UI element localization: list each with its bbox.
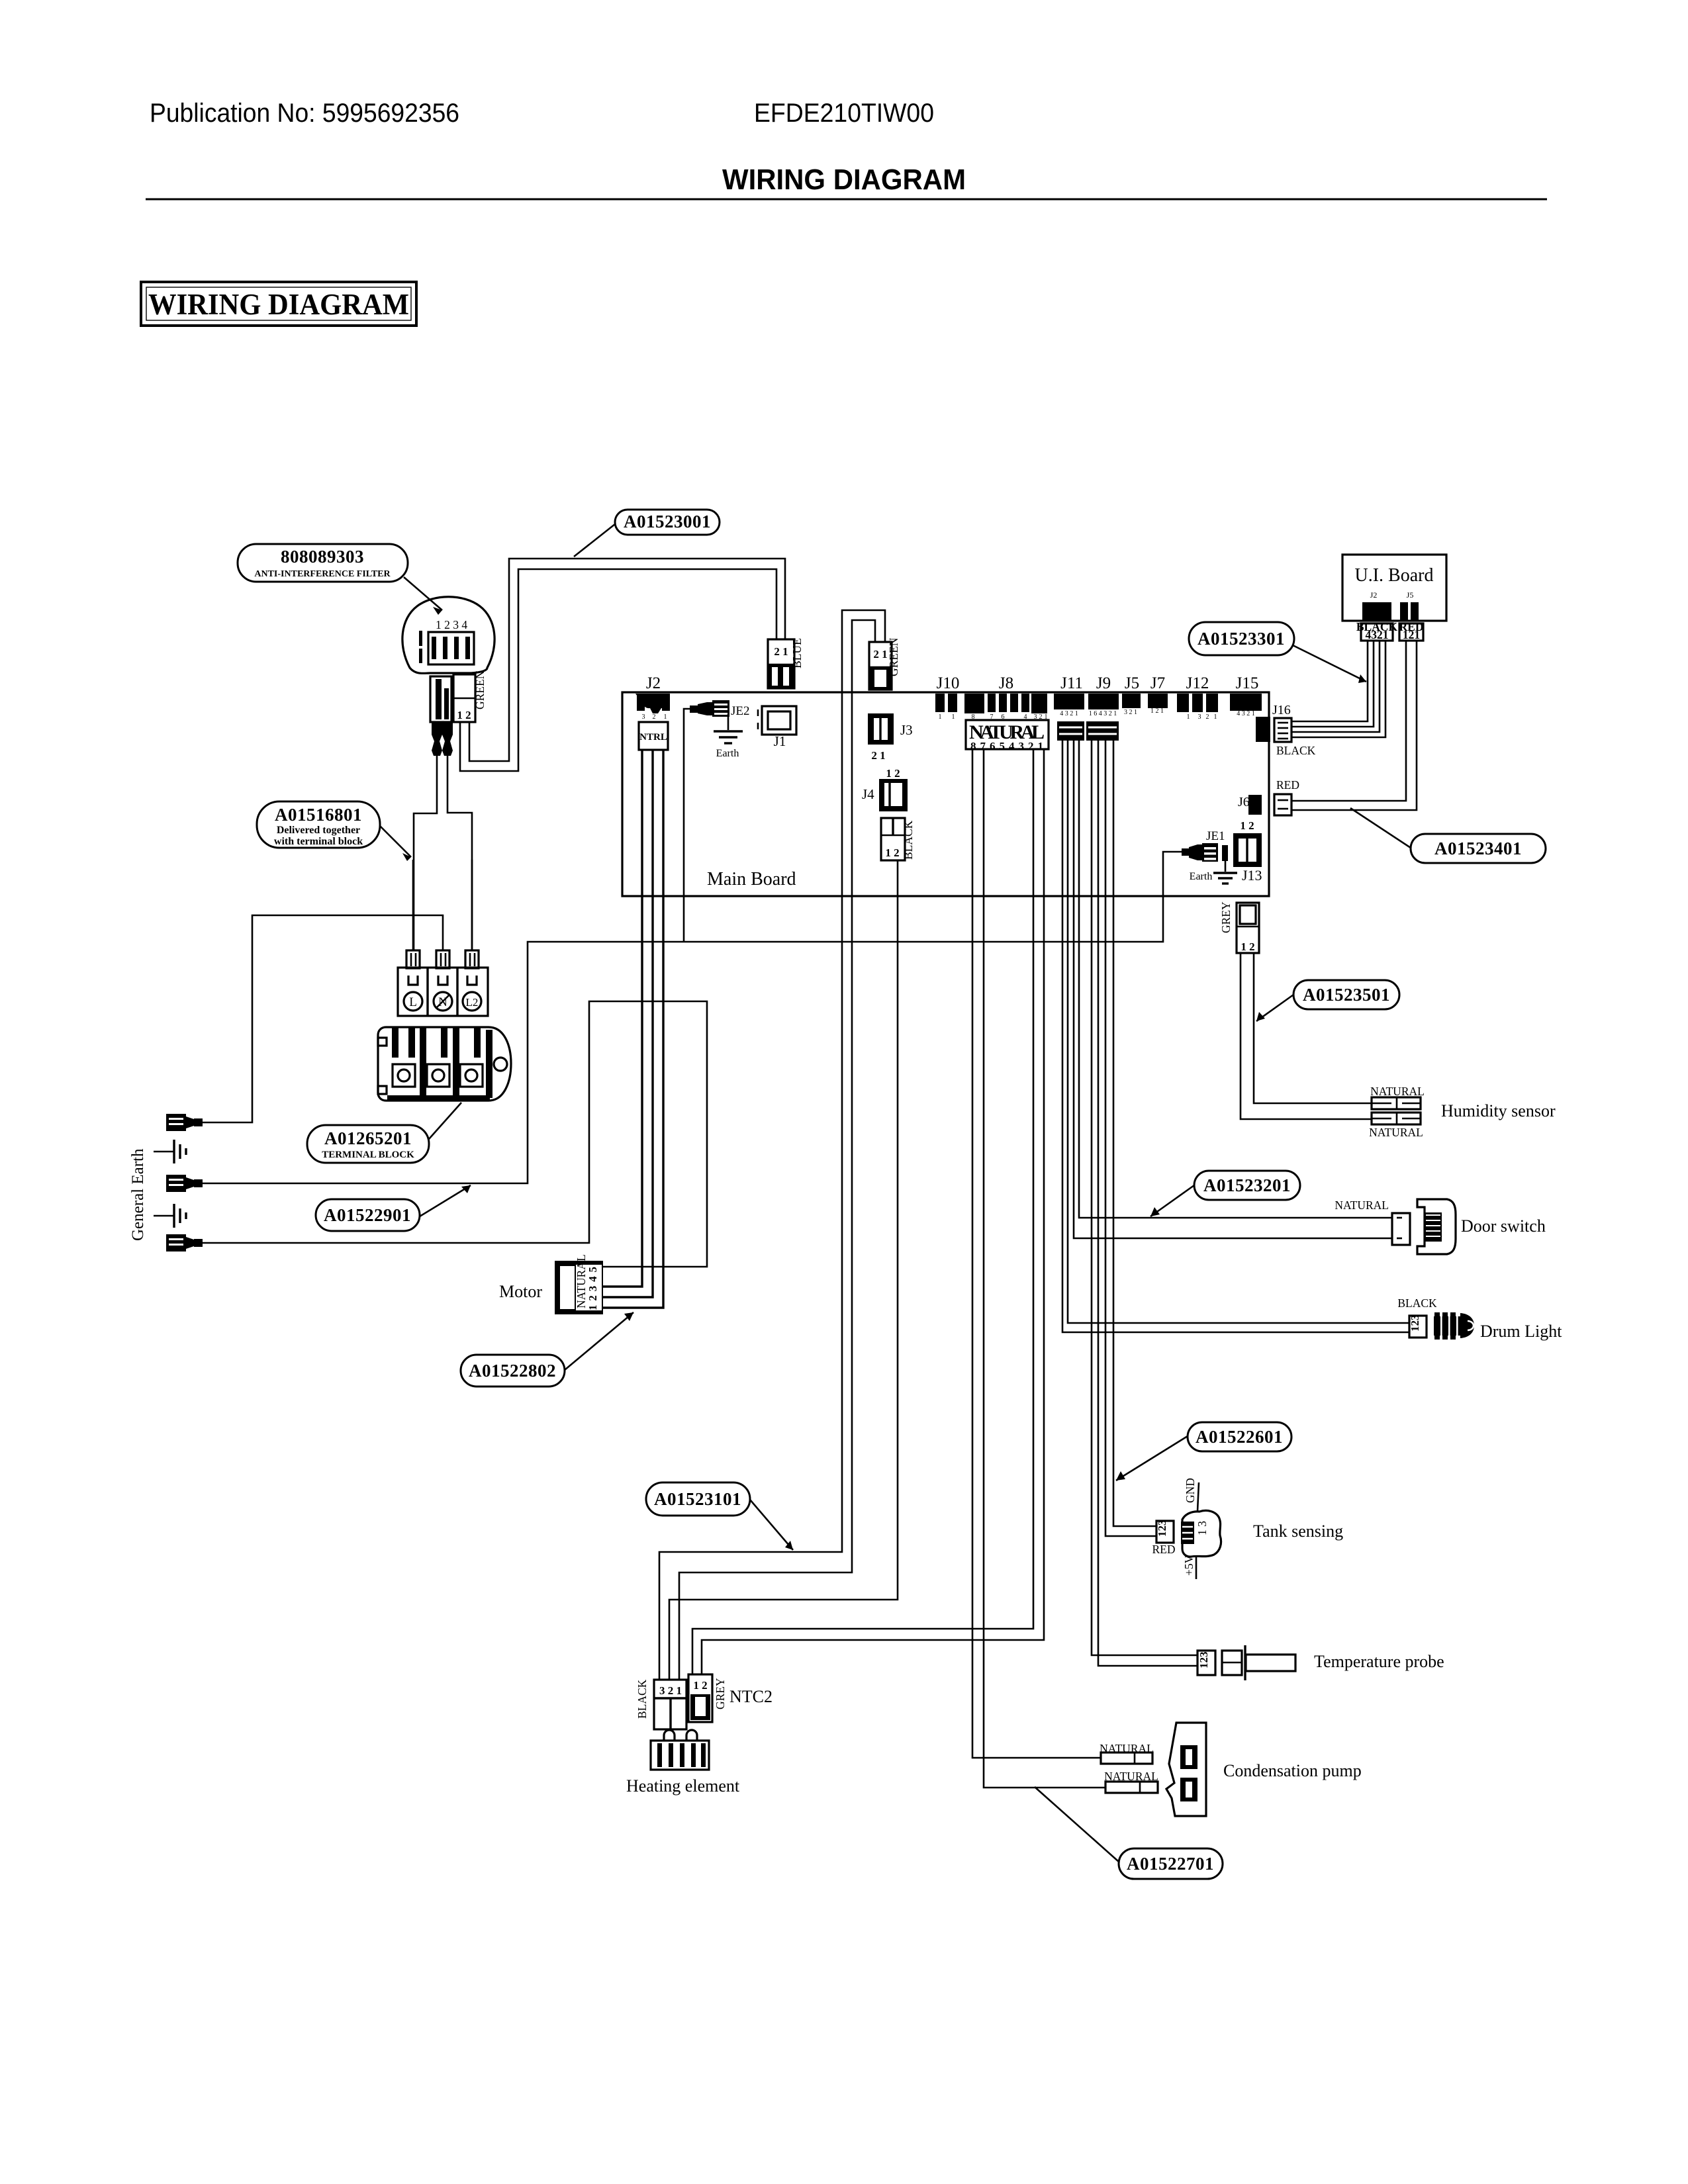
wire NATURAL8 pin1 to NTC2 GREY pin2 <box>702 749 1044 1674</box>
svg-text:A01522901: A01522901 <box>324 1205 411 1225</box>
svg-text:Humidity sensor: Humidity sensor <box>1441 1101 1556 1120</box>
main board outline <box>622 692 1269 896</box>
svg-text:1 2 1: 1 2 1 <box>1150 707 1164 715</box>
svg-text:2 1: 2 1 <box>873 648 887 660</box>
callout A01522901 <box>316 1185 471 1231</box>
svg-text:1 2 3 4 5: 1 2 3 4 5 <box>586 1267 599 1310</box>
connector block under J9 <box>1086 721 1119 741</box>
svg-text:J9: J9 <box>1096 674 1111 692</box>
connector BLUE at board top <box>768 638 804 688</box>
svg-text:3: 3 <box>642 713 645 721</box>
wire terminal N to general earth spade 1 <box>203 915 443 1122</box>
svg-text:1: 1 <box>664 713 667 721</box>
svg-text:121: 121 <box>1403 628 1420 641</box>
boxed section title WIRING DIAGRAM <box>141 282 416 326</box>
connector J7 <box>1148 694 1168 708</box>
svg-text:EFDE210TIW00: EFDE210TIW00 <box>754 99 934 128</box>
connector NATURAL 8-pin under J8 <box>966 720 1049 752</box>
temperature probe body <box>1222 1645 1295 1680</box>
svg-text:General Earth: General Earth <box>129 1148 147 1241</box>
svg-text:3 2 1: 3 2 1 <box>659 1684 682 1697</box>
connector J8 <box>964 694 1047 713</box>
svg-text:ANTI-INTERFERENCE FILTER: ANTI-INTERFERENCE FILTER <box>254 569 391 579</box>
svg-text:3: 3 <box>1198 713 1201 721</box>
svg-text:Delivered together: Delivered together <box>277 825 360 836</box>
svg-text:A01523001: A01523001 <box>624 512 711 531</box>
svg-text:J7: J7 <box>1150 674 1165 692</box>
svg-text:NTRL: NTRL <box>639 732 667 743</box>
svg-text:A01522802: A01522802 <box>469 1361 556 1381</box>
connector J1 <box>758 706 796 749</box>
connector J3 <box>868 713 913 762</box>
svg-text:123: 123 <box>1156 1520 1168 1537</box>
wire terminal L2 up to filter spade <box>471 860 473 950</box>
filter bottom spade a <box>432 723 442 756</box>
svg-text:A01523401: A01523401 <box>1434 839 1522 858</box>
callout A01523401 <box>1350 808 1546 863</box>
callout A01522601 <box>1116 1422 1291 1480</box>
svg-text:Temperature probe: Temperature probe <box>1314 1652 1444 1671</box>
svg-text:BLACK: BLACK <box>1397 1297 1437 1310</box>
pump NATURAL bar 2 <box>1104 1770 1158 1793</box>
svg-text:8 7 6 5 4 3 2 1: 8 7 6 5 4 3 2 1 <box>970 740 1043 752</box>
wire filter spade a to terminal L <box>414 756 437 950</box>
anti-interference filter dome <box>402 597 494 674</box>
heating element <box>651 1730 709 1770</box>
svg-text:4 3 2 1: 4 3 2 1 <box>1237 710 1255 717</box>
svg-text:A01523301: A01523301 <box>1197 629 1285 649</box>
svg-text:123: 123 <box>1409 1315 1421 1332</box>
svg-text:Heating element: Heating element <box>626 1776 740 1796</box>
svg-text:A01522601: A01522601 <box>1196 1427 1283 1447</box>
svg-text:1 2 3 4: 1 2 3 4 <box>436 618 467 631</box>
wire J9 pin to tank sensing upper <box>1113 741 1156 1526</box>
earth spade 1 <box>166 1114 203 1131</box>
NTC2 GREY connector <box>688 1674 727 1722</box>
svg-text:1: 1 <box>1214 713 1217 721</box>
wire NATURAL8 pin8 to pump upper <box>972 749 1101 1758</box>
svg-text:2: 2 <box>653 713 656 721</box>
svg-text:Main Board: Main Board <box>707 869 796 889</box>
wire motor pin2 to board <box>603 750 653 1297</box>
earth spade 2 <box>166 1175 203 1192</box>
svg-text:1 2: 1 2 <box>457 709 471 721</box>
connector J13 <box>1233 819 1262 884</box>
svg-text:Publication No: 5995692356: Publication No: 5995692356 <box>150 99 459 128</box>
svg-text:J12: J12 <box>1186 674 1209 692</box>
connector block under J11 <box>1057 721 1084 741</box>
svg-text:GREEN: GREEN <box>473 670 487 709</box>
callout 808089303 anti-interference filter <box>238 544 442 615</box>
svg-text:A01523201: A01523201 <box>1203 1175 1291 1195</box>
svg-text:J8: J8 <box>999 674 1013 692</box>
wire filter spade b to terminal L2 <box>447 756 472 950</box>
connector J11 <box>1054 694 1084 709</box>
svg-text:GREY: GREY <box>1219 901 1233 933</box>
wire NATURAL8 pin2 to NTC2 GREY pin1 <box>692 749 1033 1674</box>
svg-text:NATURAL: NATURAL <box>1335 1199 1389 1212</box>
wire UI BLACK to J16 (4 wires) <box>1292 641 1385 737</box>
callout A01523101 <box>646 1482 793 1550</box>
wire J11 pin to drum light upper <box>1068 741 1409 1323</box>
svg-text:A01516801: A01516801 <box>275 805 362 825</box>
svg-text:1 2: 1 2 <box>1240 819 1254 832</box>
svg-text:JE1: JE1 <box>1206 829 1225 843</box>
svg-text:NTC2: NTC2 <box>729 1687 773 1706</box>
svg-text:3 2 1: 3 2 1 <box>1124 709 1137 716</box>
svg-text:NATURAL: NATURAL <box>1369 1126 1423 1139</box>
svg-text:WIRING DIAGRAM: WIRING DIAGRAM <box>148 288 409 321</box>
svg-text:A01523501: A01523501 <box>1303 985 1390 1005</box>
terminal strip upper block L N L2 <box>398 968 488 1016</box>
pump NATURAL bar 1 <box>1100 1742 1154 1764</box>
filter bottom spade b <box>442 723 453 756</box>
wire GREY pin1 to humidity sensor lower bar <box>1241 953 1372 1119</box>
svg-text:U.I. Board: U.I. Board <box>1355 565 1434 586</box>
svg-text:L: L <box>409 995 417 1009</box>
callout A01523001 <box>574 510 720 557</box>
spade JE1 <box>1182 829 1228 862</box>
wire GREEN pin1 down through board to NTC2 pin3 <box>659 610 885 1680</box>
wire J11 pin to door switch lower <box>1074 741 1392 1238</box>
svg-text:1 2: 1 2 <box>885 846 899 859</box>
door switch body <box>1417 1199 1456 1254</box>
svg-text:J11: J11 <box>1060 674 1083 692</box>
wire GREEN pin2 down through board to NTC2 pin1 <box>679 620 875 1680</box>
callout A01523501 <box>1256 980 1399 1021</box>
svg-text:1: 1 <box>952 713 955 721</box>
wire J9 pin to temp probe lower <box>1098 741 1197 1666</box>
UI connector RED (to J5) <box>1399 620 1424 641</box>
callout A01265201 terminal block <box>307 1103 461 1163</box>
svg-text:NATURAL: NATURAL <box>575 1254 588 1308</box>
svg-text:J3: J3 <box>900 722 913 738</box>
callout A01523201 <box>1150 1171 1300 1216</box>
svg-text:J15: J15 <box>1236 674 1259 692</box>
svg-text:2 1: 2 1 <box>774 645 788 658</box>
svg-text:RED: RED <box>1152 1543 1176 1556</box>
svg-text:JE2: JE2 <box>731 704 750 718</box>
connector NATURAL 3-pin below J2 <box>639 722 668 750</box>
wire J11 pin to drum light lower <box>1062 741 1409 1332</box>
wire earth spade 2 to JE1 via board bottom <box>203 852 1182 1183</box>
wire UI RED to J6 (2 wires) <box>1292 641 1417 810</box>
terminal strip plugs (3) <box>406 950 479 968</box>
wire motor pin3 to board <box>603 750 642 1287</box>
svg-text:1: 1 <box>939 713 942 721</box>
svg-text:J6: J6 <box>1238 795 1250 809</box>
wire J4/BLACK connector down to NTC2 pin2 <box>669 860 898 1680</box>
tank sensing RED connector <box>1152 1520 1176 1557</box>
callout A01522802 <box>461 1312 633 1387</box>
svg-text:+5V: +5V <box>1182 1555 1196 1576</box>
svg-text:J4: J4 <box>862 786 874 802</box>
spade JE2 <box>690 700 750 718</box>
drum light bulb <box>1434 1312 1474 1340</box>
header rule <box>146 199 1547 201</box>
svg-text:J13: J13 <box>1242 867 1262 884</box>
svg-text:BLACK: BLACK <box>902 820 915 860</box>
callout A01522701 <box>1035 1787 1223 1879</box>
filter output block GREEN <box>453 670 487 722</box>
earth symbol at JE2 <box>714 714 743 759</box>
svg-text:A01523101: A01523101 <box>654 1489 741 1509</box>
terminal block body A01265201 <box>378 1027 511 1101</box>
svg-text:2 1: 2 1 <box>871 749 885 762</box>
wire J11 pin to door switch upper <box>1079 741 1392 1218</box>
connector J15 <box>1230 694 1262 711</box>
callout A01516801 delivered together with terminal block <box>257 801 411 861</box>
connector J5 <box>1122 694 1141 708</box>
wire terminal L up to filter spade <box>412 860 414 950</box>
connector J16 at board edge <box>1256 703 1316 757</box>
wire GREY pin2 to humidity sensor upper bar <box>1254 953 1372 1103</box>
connector GREEN at board top <box>869 637 900 690</box>
svg-text:BLUE: BLUE <box>790 638 804 668</box>
svg-text:J5: J5 <box>1125 674 1139 692</box>
svg-text:WIRING DIAGRAM: WIRING DIAGRAM <box>722 163 966 196</box>
svg-text:with terminal block: with terminal block <box>274 836 363 847</box>
svg-text:A01265201: A01265201 <box>324 1128 412 1148</box>
svg-text:4321: 4321 <box>1366 628 1389 641</box>
svg-text:J1: J1 <box>774 733 786 749</box>
earth symbol 1 <box>154 1140 186 1163</box>
wire filter GREEN pin2 loop to BLUE pin (outer) <box>469 559 785 761</box>
connector GREY below J13 <box>1219 901 1259 953</box>
svg-text:J10: J10 <box>937 674 960 692</box>
wire J9 pin to tank sensing lower <box>1105 741 1156 1536</box>
connector J12 <box>1177 694 1218 712</box>
svg-text:Earth: Earth <box>1190 871 1213 882</box>
svg-text:Earth: Earth <box>716 748 739 759</box>
svg-text:GND: GND <box>1184 1478 1197 1503</box>
filter output block (left, striped) <box>430 676 451 722</box>
tank sensing body <box>1181 1510 1221 1557</box>
connector J4 <box>862 767 908 811</box>
connector J10 <box>935 694 957 712</box>
wire JE2 to earth run junction <box>684 709 690 942</box>
svg-text:123: 123 <box>1197 1652 1210 1669</box>
connector J6 at board edge <box>1238 778 1299 815</box>
svg-text:Tank sensing: Tank sensing <box>1253 1522 1343 1541</box>
connector J9 <box>1088 694 1119 709</box>
svg-text:L2: L2 <box>466 996 479 1009</box>
svg-text:TERMINAL BLOCK: TERMINAL BLOCK <box>322 1150 414 1160</box>
svg-text:Motor: Motor <box>499 1282 542 1301</box>
svg-text:BLACK: BLACK <box>635 1679 649 1719</box>
earth symbol at J13 <box>1190 861 1237 884</box>
svg-text:J2: J2 <box>646 674 661 692</box>
svg-text:1: 1 <box>1187 713 1190 721</box>
svg-text:GREY: GREY <box>714 1678 727 1709</box>
NTC2 BLACK connector <box>635 1679 686 1729</box>
drum light connector <box>1397 1297 1437 1338</box>
svg-text:Drum Light: Drum Light <box>1480 1322 1562 1341</box>
wire NATURAL8 pin7 to pump lower <box>984 749 1105 1788</box>
svg-text:GREEN: GREEN <box>887 637 900 676</box>
UI connector BLACK (to J2) <box>1356 620 1398 641</box>
svg-text:1 3: 1 3 <box>1196 1521 1209 1535</box>
connector below J4 (BLACK 2-pin) <box>881 818 915 860</box>
svg-text:J2: J2 <box>1370 590 1378 600</box>
svg-text:4 3 2 1: 4 3 2 1 <box>1060 710 1078 717</box>
svg-text:RED: RED <box>1276 778 1299 792</box>
svg-text:BLACK: BLACK <box>1276 744 1316 757</box>
condensation pump body <box>1166 1723 1206 1816</box>
svg-text:808089303: 808089303 <box>281 547 364 567</box>
connector J2 <box>635 694 670 713</box>
callout A01523301 <box>1189 622 1366 683</box>
motor connector <box>555 1254 603 1314</box>
svg-text:A01522701: A01522701 <box>1127 1854 1214 1874</box>
tiny pin labels on board top connectors <box>642 707 1255 721</box>
svg-text:NATURAL: NATURAL <box>1370 1085 1425 1098</box>
svg-text:1 2: 1 2 <box>693 1679 707 1692</box>
temperature probe connector <box>1197 1651 1215 1675</box>
svg-text:Door switch: Door switch <box>1461 1216 1546 1236</box>
svg-text:J5: J5 <box>1407 590 1414 600</box>
tank sensing +5V lead <box>1182 1555 1196 1579</box>
wire motor pin1 to board <box>603 750 663 1308</box>
svg-text:Condensation pump: Condensation pump <box>1223 1761 1362 1780</box>
earth symbol 2 <box>154 1204 186 1228</box>
door switch connector <box>1335 1199 1410 1245</box>
humidity sensor bars <box>1369 1085 1425 1139</box>
svg-text:J16: J16 <box>1272 703 1291 717</box>
U.I. board outline <box>1342 555 1446 621</box>
wire filter GREEN pin1 loop to BLUE pin (inner) <box>460 569 776 771</box>
svg-text:1 2: 1 2 <box>886 767 900 780</box>
svg-text:1 2: 1 2 <box>1241 940 1254 953</box>
wire earth spade 3 to motor pin5 <box>203 1001 707 1267</box>
earth spade 3 <box>166 1234 203 1251</box>
tank sensing GND lead <box>1184 1478 1199 1512</box>
svg-text:1 6 4 3 2 1: 1 6 4 3 2 1 <box>1089 710 1117 717</box>
wire J9 pin to temp probe upper <box>1092 741 1197 1655</box>
svg-text:2: 2 <box>1206 713 1209 721</box>
